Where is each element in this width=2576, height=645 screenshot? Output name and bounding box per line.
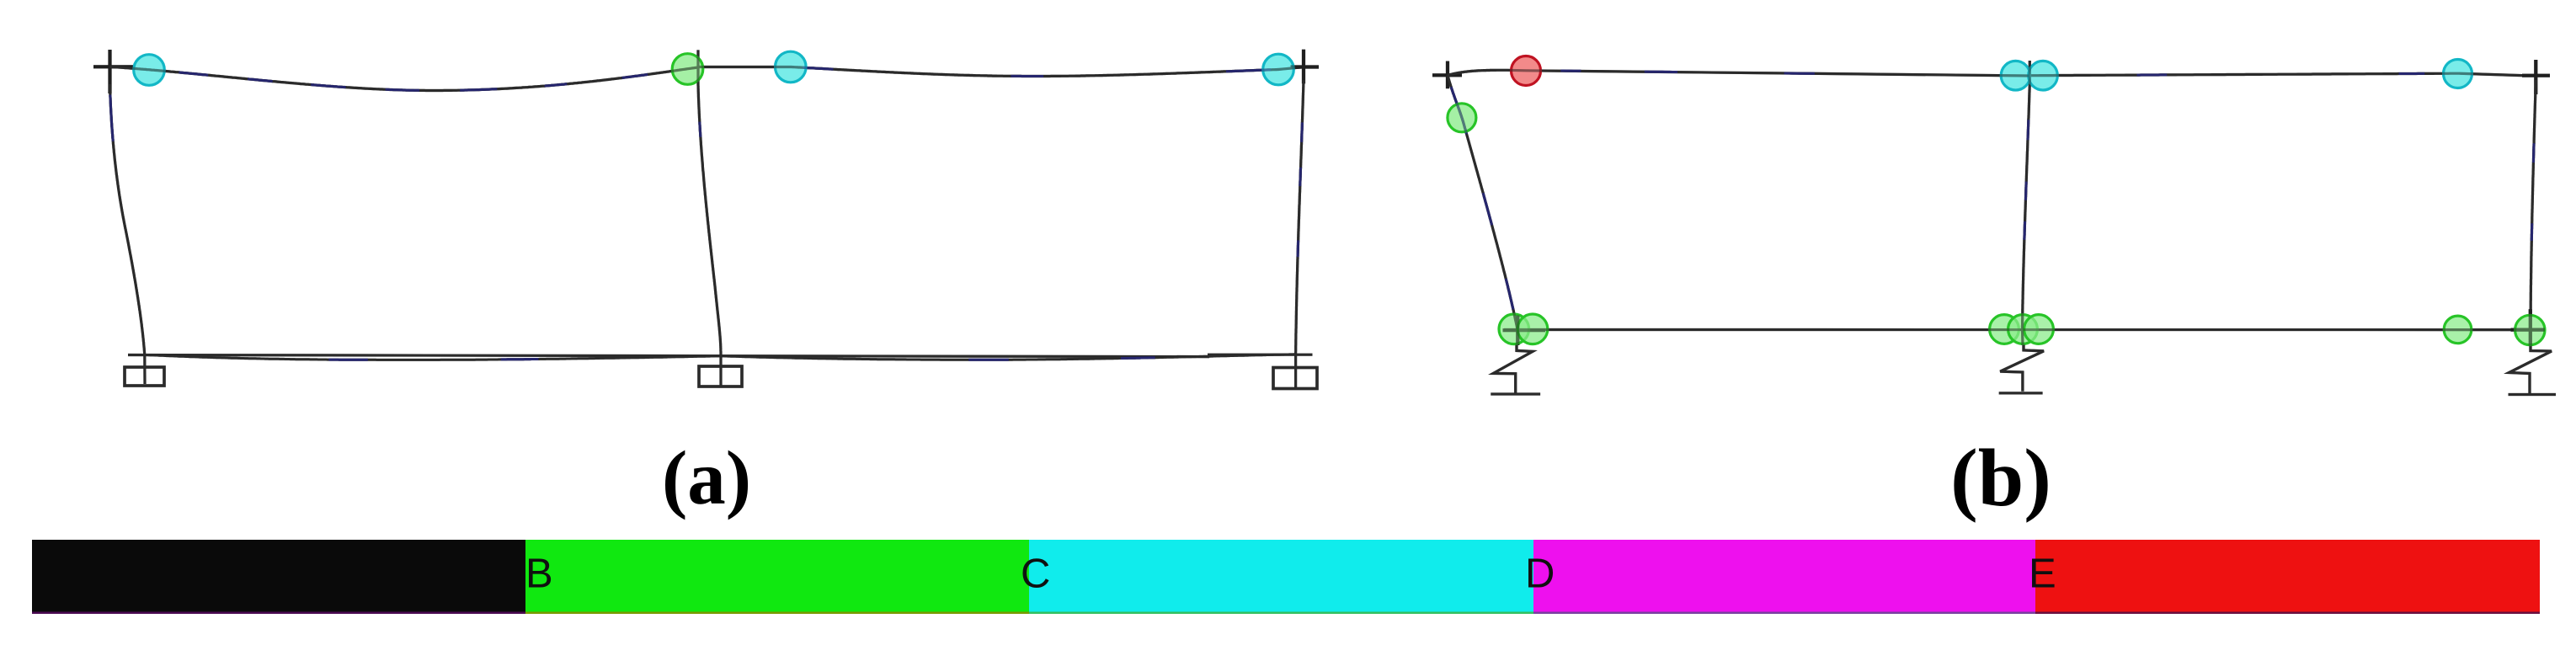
frame (b) line work: [1432, 60, 2556, 395]
beam 2 (b) navy dash 2: [2399, 72, 2425, 75]
mid column (b) with top tick: [2023, 61, 2030, 345]
mid column (b) navy dash 1: [2027, 120, 2030, 140]
colorbar segment cyan (C-D): [1029, 540, 1533, 614]
beam span 2 (a) deformed curve: [792, 67, 1304, 77]
svg-text:(a): (a): [662, 435, 751, 520]
hinge circle cyan right corner (a): [1263, 54, 1294, 85]
spring support right (b): [2509, 344, 2552, 394]
hinge circle green mid joint (a): [672, 54, 703, 85]
mid column (a) with top tick: [698, 50, 721, 387]
base sag span1 navy dash 2: [501, 358, 539, 360]
colorbar segment green (B-C): [525, 540, 1029, 614]
base line (a) right overlap segment: [1208, 354, 1313, 356]
svg-text:C: C: [1021, 552, 1050, 597]
hinge circle cyan pair right at mid joint (b): [2029, 61, 2058, 90]
beam 1 (a) navy dash 7: [622, 74, 648, 77]
beam 2 (a) navy dash 3: [1226, 70, 1271, 72]
colorbar segment black (A-B): [32, 540, 525, 614]
left column (b) navy dash 2: [1483, 193, 1491, 225]
right column (a): [1296, 80, 1304, 387]
beam span 2 (a) straight segment: [698, 66, 792, 68]
left column (b) navy dash 1: [1451, 87, 1466, 134]
beam 2 (a) navy dash 2: [1011, 75, 1043, 77]
colorbar segment red (E-): [2035, 540, 2540, 614]
line re-overlay (b): [1432, 60, 2556, 395]
beam 1 (b) navy dash 3: [1784, 72, 1815, 75]
base line (a) deformed: [128, 355, 1209, 357]
hinge circle red on beam top-left (b): [1512, 56, 1541, 86]
svg-text:(b): (b): [1950, 433, 2051, 524]
mid column (b) navy dash 2: [2024, 182, 2028, 200]
hinge circle green on base beam (b): [2444, 316, 2472, 344]
base cross marker right (b): [2511, 309, 2546, 346]
mid column (b) navy dash 3: [2023, 221, 2026, 240]
hinge circle green base mid joint 2 (b): [2008, 315, 2038, 344]
beam 1 (a) navy dash 3: [311, 85, 345, 88]
beam span 1 (b): [1448, 70, 2030, 76]
line re-overlay (a): [93, 50, 1319, 389]
hinge circle green on left column (b): [1448, 104, 1476, 132]
left column (a) navy overlay: [110, 95, 113, 141]
base sag span2 navy dash 2: [1121, 356, 1155, 360]
base cross marker left (b): [1503, 316, 1546, 346]
node cross marker top-right (a): [1291, 50, 1320, 84]
spring ground line middle (b): [1999, 392, 2043, 394]
node cross marker top-left (a): [93, 50, 133, 93]
left column (b) deformed: [1448, 75, 1517, 345]
base sag span2 navy dash 1: [968, 359, 1009, 361]
beam 1 (a) navy dash 2: [248, 79, 273, 82]
right column (b): [2531, 80, 2536, 345]
beam 1 (a) navy dash 5: [460, 89, 497, 91]
support box middle (a): [699, 366, 742, 386]
spring ground line left (b): [1491, 392, 1540, 395]
support box right (a): [1273, 368, 1317, 389]
spring ground line right (b): [2509, 393, 2557, 396]
right column (a) navy dash 1: [1300, 122, 1304, 142]
beam 2 (b) navy dash 1: [2137, 73, 2168, 76]
spring support left (b): [1493, 344, 1533, 393]
base sag span1 navy dash 1: [328, 359, 367, 361]
beam span 1 (a) deformed: [110, 67, 699, 90]
frame (a) line work: [93, 50, 1319, 389]
base beam deformed sag span 2 (a): [721, 354, 1295, 360]
hinge circle green base right joint (b): [2515, 315, 2545, 344]
left column (a) deformed: [110, 84, 146, 384]
right column (b) navy dash 1: [2532, 143, 2536, 163]
base beam deformed sag span 1 (a): [147, 355, 721, 360]
hinge circle green base mid joint 1 (b): [1990, 315, 2019, 344]
node cross marker top-right (b): [2522, 60, 2550, 94]
colorbar segment magenta (D-E): [1533, 540, 2035, 614]
support box left (a): [125, 367, 164, 386]
hinge circle cyan left corner (a): [134, 55, 165, 86]
base beam (b): [1504, 328, 2543, 331]
spring support middle (b): [2000, 344, 2044, 392]
beam 1 (b) navy dash 2: [1645, 71, 1677, 73]
beam span 2 (b): [2029, 73, 2522, 76]
right column (a) navy dash 2: [1299, 168, 1302, 186]
hinge circle green base left joint 1 (b): [1499, 314, 1529, 344]
hinge circle green base mid joint 3 (b): [2024, 315, 2054, 344]
mid column (a) navy dash: [700, 122, 701, 137]
svg-text:D: D: [1525, 552, 1555, 597]
hinge circle green base left joint 2 (b): [1517, 314, 1548, 344]
beam 1 (a) navy dash 6: [545, 84, 568, 86]
svg-text:B: B: [525, 552, 553, 597]
beam 1 (a) navy dash 1: [179, 72, 208, 75]
hinge circle cyan pair left at mid joint (b): [2001, 61, 2030, 90]
node cross marker top-left (b): [1432, 61, 1462, 89]
beam 2 (a) navy dash 1: [803, 67, 833, 69]
right column (a) navy dash 3: [1297, 240, 1300, 257]
beam 1 (b) navy dash 1: [1560, 70, 1581, 72]
left column (b) navy dash 3: [1506, 279, 1513, 310]
hinge circle cyan on beam 2 (b): [2444, 60, 2472, 88]
hinge circle cyan on beam 2 (a): [776, 51, 807, 83]
right column (b) navy dash 2: [2531, 223, 2533, 241]
svg-text:E: E: [2029, 552, 2056, 597]
beam 1 (a) navy dash 4: [386, 89, 419, 90]
